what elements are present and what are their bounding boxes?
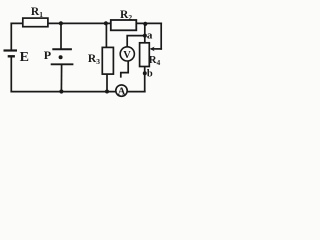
wire right edge down to wiper: [160, 23, 162, 49]
junction dot R3 branch bottom: [105, 90, 109, 94]
node a junction dot: [143, 34, 147, 38]
junction dot R3 branch top: [104, 21, 108, 25]
junction dot after R2: [143, 22, 147, 26]
wiper arrowhead pointing at R4: [150, 47, 155, 52]
battery E long plate: [4, 49, 18, 51]
node b junction dot: [143, 71, 147, 75]
svg-text:b: b: [147, 68, 153, 79]
capacitor top plate: [52, 48, 72, 50]
resistor R2: [111, 20, 137, 30]
wire voltmeter bottom lead hook: [121, 61, 128, 77]
junction dot capacitor branch bottom: [59, 89, 63, 93]
wire capacitor branch upper lead: [60, 23, 62, 48]
capacitor bottom plate: [51, 63, 74, 65]
resistor R4 (rheostat): [140, 43, 150, 67]
wire left edge upper to battery: [10, 23, 12, 49]
svg-text:P: P: [44, 48, 51, 62]
wire R4 bottom lead through node b to bottom wire: [144, 66, 146, 91]
wire bottom horizontal: [11, 91, 145, 93]
svg-text:A: A: [118, 87, 126, 98]
resistor R1: [23, 18, 48, 27]
voltmeter V: [120, 47, 134, 61]
ammeter A: [116, 85, 127, 96]
particle P dot between plates: [59, 55, 63, 59]
wire node after R2 down to a and R4: [144, 23, 146, 43]
svg-text:E: E: [20, 50, 29, 65]
junction dot capacitor branch top: [59, 21, 63, 25]
wire top horizontal: [11, 22, 161, 24]
wire voltmeter top lead: [127, 36, 145, 48]
wire left edge battery to bottom: [10, 57, 12, 91]
svg-text:a: a: [147, 29, 153, 41]
svg-text:V: V: [123, 50, 131, 61]
resistor R3: [102, 47, 113, 74]
wire wiper shaft of rheostat R4: [152, 48, 161, 50]
battery E short plate: [8, 55, 15, 57]
wire R3 branch upper lead: [105, 23, 107, 47]
wire capacitor branch lower lead: [60, 65, 62, 92]
wire R3 branch lower lead: [106, 74, 108, 92]
